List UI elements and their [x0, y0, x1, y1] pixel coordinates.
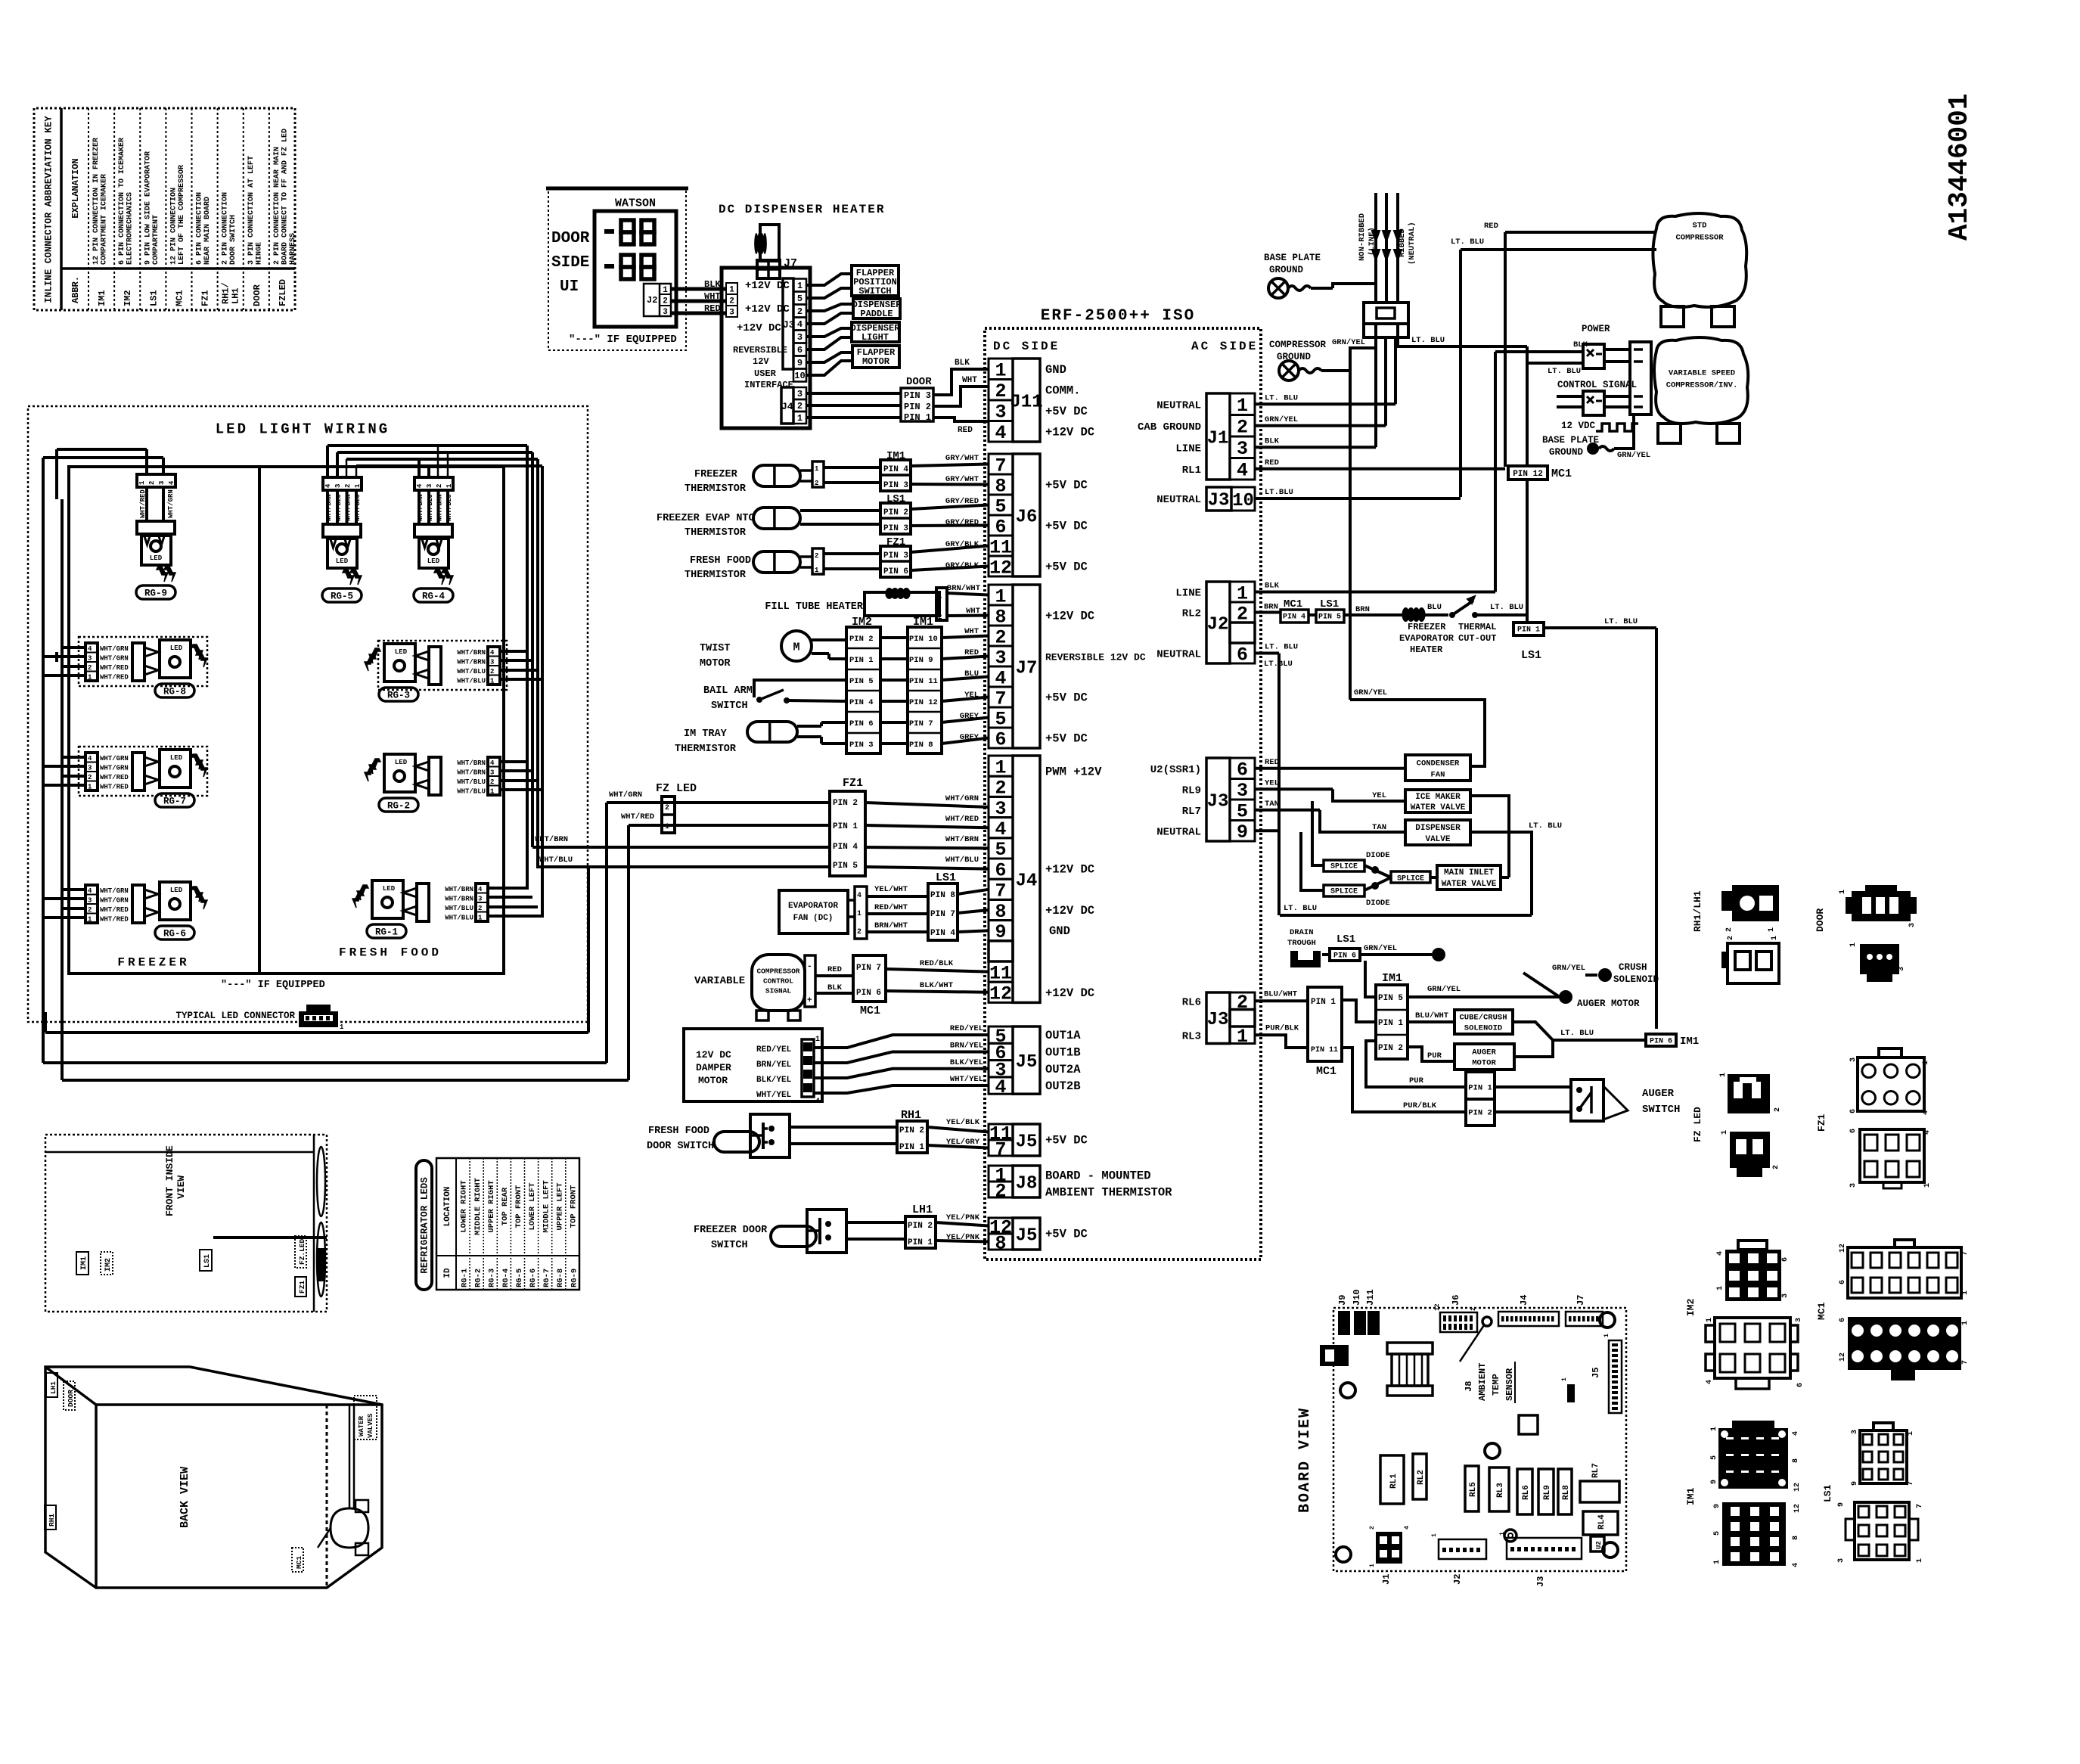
svg-text:MIDDLE LEFT: MIDDLE LEFT: [542, 1180, 551, 1232]
label FZ1 front view: [295, 1277, 306, 1297]
variable speed compressor blob: [1654, 337, 1748, 424]
svg-text:SOLENOID: SOLENOID: [1613, 974, 1659, 985]
svg-text:12: 12: [1434, 1303, 1441, 1311]
svg-text:BACK VIEW: BACK VIEW: [179, 1467, 191, 1528]
svg-text:LED: LED: [383, 885, 396, 893]
svg-text:PWM +12V: PWM +12V: [1045, 766, 1102, 779]
connector J3 pin 10: [1206, 487, 1231, 511]
LED plug RG-1: [417, 884, 429, 921]
svg-text:RG-3: RG-3: [387, 690, 410, 700]
svg-text:RG-2: RG-2: [387, 800, 410, 811]
svg-text:3: 3: [1898, 967, 1906, 971]
svg-text:HARNESS: HARNESS: [289, 233, 297, 265]
svg-text:TEMP: TEMP: [1491, 1374, 1501, 1396]
LED plug RG-9: [137, 521, 175, 534]
connector picture FZ1 rear: [1860, 1129, 1924, 1182]
svg-text:3: 3: [797, 332, 803, 343]
svg-text:4: 4: [1792, 1563, 1800, 1567]
pcb heatsink: [1387, 1343, 1433, 1354]
wire BLK J2-1 to UI: [671, 287, 726, 291]
svg-text:OUT1B: OUT1B: [1045, 1045, 1081, 1059]
svg-text:VARIABLE SPEED: VARIABLE SPEED: [1669, 369, 1735, 378]
svg-text:12: 12: [1793, 1504, 1802, 1513]
svg-text:DOOR: DOOR: [252, 284, 262, 306]
board view outline: [1333, 1308, 1626, 1571]
svg-text:TOP FRONT: TOP FRONT: [514, 1185, 523, 1228]
svg-text:SWITCH: SWITCH: [711, 700, 748, 712]
LED box RG-7: [160, 750, 191, 787]
wire J1-2 GRN/YEL: [1255, 424, 1386, 427]
svg-text:12V: 12V: [753, 356, 769, 367]
svg-text:PIN 1: PIN 1: [904, 412, 931, 423]
LED pin block RG-1: [476, 884, 488, 921]
bolts RG-1: [357, 885, 368, 900]
wire LS1 PIN6 to IM1 PIN5: [1365, 961, 1376, 997]
svg-text:GRY/BLK: GRY/BLK: [945, 561, 979, 570]
svg-text:RL5: RL5: [1469, 1482, 1478, 1497]
wire BRN/WHT to J4-9: [867, 930, 928, 933]
condenser fan box: [1405, 755, 1470, 781]
svg-text:1: 1: [1916, 1558, 1924, 1563]
back view outline: [45, 1367, 382, 1588]
svg-text:LT. BLU: LT. BLU: [1490, 603, 1523, 612]
svg-text:MAIN INLET: MAIN INLET: [1444, 868, 1494, 877]
UI inline pins 1-3: [726, 283, 737, 294]
pcb relay RL4: [1583, 1511, 1618, 1535]
svg-text:RL1: RL1: [1182, 464, 1201, 477]
svg-text:PIN 2: PIN 2: [1378, 1044, 1403, 1053]
connector J3 AC pin column: [1230, 758, 1255, 779]
wire PUR to auger switch PIN 1: [1366, 1041, 1466, 1087]
svg-text:1: 1: [478, 915, 483, 922]
svg-text:RG-7: RG-7: [542, 1269, 551, 1287]
svg-text:5: 5: [797, 293, 803, 304]
thermal cut-out switch: [1424, 613, 1448, 616]
svg-text:BRN/WHT: BRN/WHT: [947, 584, 980, 593]
led bus stubs RG-8: [62, 646, 85, 649]
svg-text:LED: LED: [336, 557, 349, 565]
svg-text:12: 12: [1839, 1244, 1847, 1253]
svg-text:AC SIDE: AC SIDE: [1191, 340, 1258, 353]
wire GRY/WHT to J6-8: [824, 481, 880, 484]
svg-text:1: 1: [857, 910, 861, 918]
svg-text:RED: RED: [958, 426, 973, 435]
LED connector RG-5: [323, 477, 362, 490]
label WATER VALVES back view: [354, 1396, 377, 1439]
front view freezer divider: [213, 1236, 327, 1239]
svg-text:6: 6: [797, 345, 803, 356]
svg-text:4: 4: [1404, 1526, 1411, 1530]
svg-text:FZ1: FZ1: [298, 1281, 306, 1293]
svg-text:BOARD - MOUNTED: BOARD - MOUNTED: [1045, 1169, 1151, 1183]
svg-text:YEL: YEL: [1265, 778, 1279, 787]
svg-text:BRN: BRN: [1355, 605, 1370, 614]
svg-text:NEAR MAIN BOARD: NEAR MAIN BOARD: [203, 197, 212, 265]
svg-text:4: 4: [1237, 460, 1248, 482]
svg-text:LH1: LH1: [49, 1381, 57, 1394]
svg-text:(NEUTRAL): (NEUTRAL): [1408, 222, 1417, 265]
svg-text:WHT/BRN: WHT/BRN: [457, 759, 486, 767]
svg-text:LT. BLU: LT. BLU: [1548, 367, 1581, 376]
svg-text:EXPLANATION: EXPLANATION: [70, 158, 81, 218]
svg-text:BLK: BLK: [955, 359, 970, 368]
door slots front view: [317, 1147, 325, 1216]
svg-text:+12V DC: +12V DC: [737, 322, 781, 334]
svg-text:GREY: GREY: [960, 712, 979, 721]
svg-text:J3: J3: [1207, 1010, 1229, 1030]
pcb relay RL9: [1538, 1469, 1554, 1514]
ice maker water valve box: [1405, 790, 1470, 812]
wires freezer door switch to LH1 to J5: [846, 1221, 905, 1224]
svg-text:RH1/: RH1/: [221, 282, 231, 304]
svg-text:PIN 4: PIN 4: [849, 698, 874, 707]
wire J3-1 PUR/BLK: [1255, 1035, 1308, 1048]
svg-text:2: 2: [995, 1180, 1006, 1202]
svg-text:REVERSIBLE: REVERSIBLE: [733, 345, 787, 356]
LED pin block RG-8: [85, 643, 98, 681]
freezer evaporator heater coil: [1402, 607, 1425, 622]
svg-text:IM2: IM2: [1685, 1298, 1697, 1316]
vertical GRN/YEL to condenser fan: [1349, 371, 1352, 700]
svg-text:LED: LED: [170, 887, 183, 894]
svg-text:BLK: BLK: [1265, 436, 1280, 446]
svg-text:RED/BLK: RED/BLK: [920, 959, 954, 968]
pcb U2: [1591, 1536, 1604, 1551]
svg-text:GROUND: GROUND: [1549, 447, 1584, 458]
bolts RG-4: [434, 570, 445, 585]
svg-text:1: 1: [1237, 1026, 1248, 1048]
svg-text:GRN/YEL: GRN/YEL: [1354, 688, 1387, 697]
svg-text:MOTOR: MOTOR: [862, 356, 890, 367]
pcb relay RL7: [1580, 1481, 1619, 1502]
LED connector RG-9: [137, 474, 175, 487]
svg-text:TOP FRONT: TOP FRONT: [569, 1185, 578, 1228]
svg-text:J3: J3: [1208, 490, 1230, 511]
cube/crush solenoid box: [1454, 1010, 1513, 1034]
bolts RG-7: [191, 754, 203, 769]
svg-text:VALVE: VALVE: [1425, 835, 1450, 844]
svg-text:J1: J1: [1381, 1574, 1392, 1585]
svg-text:1: 1: [815, 465, 819, 473]
dispenser light box: [852, 322, 899, 342]
svg-text:PIN 7: PIN 7: [930, 910, 955, 919]
cube and auger loop to LT. BLU: [1513, 1022, 1646, 1040]
svg-text:YEL: YEL: [964, 691, 979, 700]
svg-text:WHT/BRN: WHT/BRN: [345, 494, 352, 521]
svg-text:GROUND: GROUND: [1269, 265, 1304, 275]
connector J5 pin column: [989, 1026, 1013, 1043]
connector picture DOOR rear: [1860, 944, 1899, 974]
svg-text:WHT/BLU: WHT/BLU: [335, 494, 343, 521]
svg-text:+12V DC: +12V DC: [1045, 904, 1094, 918]
wire RED DOOR to J11-4: [933, 418, 989, 421]
connector J3 AC pin column: [1230, 992, 1255, 1010]
connector J5 label box: [1013, 1026, 1040, 1094]
svg-text:WHT/YEL: WHT/YEL: [950, 1075, 983, 1084]
connector J3 AC label box: [1206, 758, 1230, 841]
svg-text:LED: LED: [395, 648, 408, 656]
svg-text:9: 9: [1237, 821, 1248, 843]
pcb relay RL5: [1465, 1466, 1479, 1511]
svg-text:+12V DC: +12V DC: [1045, 610, 1094, 623]
svg-text:PUR: PUR: [1409, 1076, 1424, 1085]
svg-text:GRN/YEL: GRN/YEL: [1427, 985, 1461, 994]
wire RED to std compressor: [1505, 231, 1656, 234]
svg-text:6: 6: [1796, 1383, 1805, 1387]
svg-text:J2: J2: [647, 295, 657, 306]
wire LT.BLU to power module: [1527, 362, 1583, 365]
neutral return loop: [1255, 829, 1280, 832]
svg-text:+5V DC: +5V DC: [1045, 1228, 1088, 1241]
svg-text:"---" IF EQUIPPED: "---" IF EQUIPPED: [221, 980, 325, 991]
svg-text:LT. BLU: LT. BLU: [1411, 336, 1445, 345]
svg-text:MOTOR: MOTOR: [1472, 1059, 1496, 1068]
svg-text:PIN 3: PIN 3: [904, 390, 931, 401]
svg-text:COMPRESSOR/INV.: COMPRESSOR/INV.: [1666, 381, 1738, 390]
wire J3-2 BLU/WHT: [1255, 999, 1308, 1002]
pcb relay RL1: [1380, 1455, 1404, 1504]
power plug: [1364, 303, 1408, 337]
connector J1 AC label box: [1206, 393, 1230, 480]
svg-text:SOLENOID: SOLENOID: [1464, 1024, 1502, 1033]
svg-text:RG-9: RG-9: [144, 588, 167, 598]
svg-text:FZ LED: FZ LED: [1692, 1107, 1703, 1142]
svg-text:RG-1: RG-1: [375, 927, 398, 937]
svg-text:9: 9: [1713, 1504, 1721, 1508]
svg-text:WHT/RED: WHT/RED: [100, 906, 129, 914]
LED box RG-8: [160, 640, 191, 678]
pcb J3 connector: [1507, 1538, 1582, 1559]
svg-text:GRY/WHT: GRY/WHT: [945, 454, 979, 463]
wire BLK to power module: [1495, 350, 1583, 353]
svg-text:CUT-OUT: CUT-OUT: [1458, 633, 1496, 644]
svg-text:WHT/BRN: WHT/BRN: [436, 494, 444, 521]
svg-text:DOOR SWITCH: DOOR SWITCH: [647, 1141, 714, 1152]
freezer evap thermistor symbol: [753, 508, 800, 529]
svg-text:3: 3: [1849, 1183, 1858, 1188]
svg-text:THERMISTOR: THERMISTOR: [685, 527, 747, 539]
svg-text:LT.BLU: LT.BLU: [1265, 488, 1293, 497]
svg-text:LINE: LINE: [1175, 588, 1201, 600]
svg-text:SPLICE: SPLICE: [1330, 863, 1358, 871]
flapper position switch box: [852, 266, 899, 296]
svg-text:+5V DC: +5V DC: [1045, 520, 1088, 533]
svg-text:DOOR: DOOR: [1815, 908, 1826, 932]
svg-text:REVERSIBLE 12V DC: REVERSIBLE 12V DC: [1045, 652, 1146, 663]
svg-text:PIN 7: PIN 7: [856, 964, 881, 973]
svg-text:2: 2: [815, 480, 818, 487]
svg-text:RED: RED: [964, 648, 979, 657]
svg-text:REFRIGERATOR LEDS: REFRIGERATOR LEDS: [419, 1177, 430, 1274]
svg-text:MIDDLE RIGHT: MIDDLE RIGHT: [473, 1178, 483, 1235]
svg-text:12: 12: [989, 983, 1012, 1005]
label DOOR back view: [64, 1381, 75, 1410]
svg-text:RED/YEL: RED/YEL: [950, 1024, 983, 1033]
svg-text:CAB GROUND: CAB GROUND: [1138, 421, 1201, 433]
wire J3-5 TAN to dispenser valve: [1255, 809, 1320, 812]
std compressor blob: [1653, 213, 1746, 307]
svg-text:DOOR: DOOR: [551, 230, 590, 247]
valve return loop LT. BLU: [1470, 796, 1509, 877]
splice middle: [1391, 871, 1430, 883]
dispenser valve box: [1405, 820, 1470, 845]
svg-text:OUT2B: OUT2B: [1045, 1079, 1081, 1093]
svg-text:GND: GND: [1045, 363, 1066, 377]
label IM1 front view: [76, 1252, 88, 1275]
connector picture LS1 rear: [1855, 1502, 1909, 1560]
fresh food bus tops: [328, 444, 527, 447]
svg-text:7: 7: [1961, 1251, 1970, 1256]
svg-text:WHT/GRN: WHT/GRN: [100, 655, 129, 663]
svg-text:LED: LED: [170, 754, 183, 762]
svg-text:LT. BLU: LT. BLU: [1560, 1029, 1594, 1038]
svg-text:TAN: TAN: [1265, 800, 1279, 809]
svg-text:AMBIENT THERMISTOR: AMBIENT THERMISTOR: [1045, 1186, 1172, 1200]
svg-text:WATER VALVE: WATER VALVE: [1442, 880, 1497, 889]
svg-text:+12V DC: +12V DC: [1045, 863, 1094, 877]
svg-text:LH1: LH1: [231, 287, 241, 304]
svg-text:1: 1: [490, 788, 495, 796]
svg-text:5: 5: [1710, 1455, 1718, 1460]
svg-text:FRESH FOOD: FRESH FOOD: [690, 555, 751, 567]
wire GRY/RED to J6-5: [800, 509, 880, 512]
svg-text:WHT/RED: WHT/RED: [621, 812, 654, 821]
wires UI J4 to DOOR: [806, 392, 901, 395]
svg-text:RL6: RL6: [1522, 1485, 1531, 1500]
svg-text:BRN/YEL: BRN/YEL: [756, 1061, 792, 1070]
svg-text:U2(SSR1): U2(SSR1): [1150, 764, 1201, 776]
svg-text:2: 2: [1369, 1526, 1376, 1530]
user interface box: [722, 268, 810, 428]
12V DC damper motor box: [684, 1029, 822, 1101]
svg-text:2: 2: [665, 804, 669, 812]
svg-text:"---" IF EQUIPPED: "---" IF EQUIPPED: [569, 334, 677, 346]
wires damper motor to J5: [814, 1035, 989, 1048]
svg-text:8: 8: [1792, 1536, 1800, 1540]
svg-text:4: 4: [416, 483, 424, 488]
svg-text:4: 4: [1923, 1130, 1932, 1135]
watson display box: [595, 211, 676, 327]
svg-text:1: 1: [1849, 943, 1858, 947]
svg-text:J6: J6: [1451, 1295, 1461, 1306]
svg-text:WHT: WHT: [704, 291, 721, 302]
svg-text:PIN 4: PIN 4: [1283, 613, 1305, 622]
LED box RG-5: [328, 539, 357, 568]
wire J2-6 LT. BLU neutral: [1255, 652, 1279, 655]
svg-text:WHT/BLU: WHT/BLU: [945, 856, 979, 865]
svg-text:COMPRESSOR: COMPRESSOR: [1269, 340, 1327, 350]
svg-text:7: 7: [995, 1138, 1006, 1160]
svg-text:BOARD VIEW: BOARD VIEW: [1296, 1407, 1314, 1513]
svg-text:4: 4: [1792, 1431, 1800, 1436]
svg-text:1: 1: [1237, 395, 1248, 417]
svg-text:YEL/BLK: YEL/BLK: [946, 1118, 980, 1127]
svg-text:IM1: IM1: [97, 290, 107, 306]
svg-text:MC1: MC1: [174, 290, 185, 306]
connector J7 label box: [1013, 585, 1040, 748]
LED box RG-3: [384, 644, 415, 682]
svg-text:RH1: RH1: [48, 1514, 56, 1526]
oval RG-7: [155, 793, 194, 807]
svg-text:LT. BLU: LT. BLU: [1604, 617, 1638, 626]
svg-text:J4: J4: [1519, 1295, 1529, 1306]
svg-text:YEL/GRY: YEL/GRY: [946, 1138, 980, 1147]
svg-text:WHT/RED: WHT/RED: [100, 674, 129, 682]
svg-text:CONDENSER: CONDENSER: [1417, 759, 1460, 769]
svg-text:DIODE: DIODE: [1366, 899, 1390, 908]
svg-text:1: 1: [1431, 1533, 1438, 1537]
oval RG-6: [155, 926, 194, 939]
svg-text:NEUTRAL: NEUTRAL: [1156, 494, 1201, 506]
front inside view box: [45, 1135, 327, 1312]
LED box RG-4: [419, 539, 449, 568]
svg-text:DIODE: DIODE: [1366, 851, 1390, 860]
svg-text:GRY/RED: GRY/RED: [945, 497, 979, 506]
svg-text:GRY/RED: GRY/RED: [945, 518, 979, 527]
inline LS1 PIN 1: [1513, 623, 1544, 635]
wires RG-5: [326, 490, 329, 524]
svg-text:DRAIN: DRAIN: [1290, 928, 1314, 937]
svg-text:RG-1: RG-1: [461, 1269, 470, 1287]
svg-text:WHT: WHT: [964, 627, 979, 636]
wires RG-4: [418, 490, 421, 524]
svg-text:1: 1: [1907, 1431, 1915, 1436]
svg-text:FREEZER: FREEZER: [117, 956, 189, 970]
svg-text:WHT/BRN: WHT/BRN: [417, 494, 424, 521]
svg-text:LED LIGHT WIRING: LED LIGHT WIRING: [216, 421, 390, 438]
pcb small part: [1567, 1384, 1575, 1402]
svg-text:BRN/YEL: BRN/YEL: [950, 1041, 983, 1050]
svg-text:IM TRAY: IM TRAY: [684, 728, 728, 740]
svg-text:GRN/YEL: GRN/YEL: [1617, 451, 1650, 460]
svg-text:+5V DC: +5V DC: [1045, 561, 1088, 574]
svg-text:WHT/BRN: WHT/BRN: [445, 886, 473, 893]
svg-text:HEATER: HEATER: [1410, 644, 1443, 655]
svg-text:COMPARTMENT: COMPARTMENT: [152, 215, 160, 265]
svg-text:J2: J2: [1207, 614, 1229, 635]
LED connector RG-4: [414, 477, 453, 490]
condenser fan return GRN/YEL: [1350, 700, 1485, 766]
svg-text:2: 2: [1237, 417, 1248, 439]
connector J4 pin column: [989, 756, 1013, 776]
wire WHT J2-2 to UI: [671, 300, 726, 303]
svg-text:CONTROL SIGNAL: CONTROL SIGNAL: [1557, 380, 1637, 390]
svg-text:J5: J5: [1016, 1225, 1038, 1246]
led bus stubs RG-7: [62, 756, 85, 759]
svg-text:BRN: BRN: [1264, 603, 1278, 612]
svg-text:NEUTRAL: NEUTRAL: [1156, 649, 1201, 661]
svg-text:ABBR.: ABBR.: [70, 276, 81, 303]
svg-text:+: +: [807, 996, 812, 1005]
svg-text:2: 2: [857, 928, 861, 936]
svg-text:RED/WHT: RED/WHT: [874, 903, 908, 912]
svg-text:FREEZER: FREEZER: [694, 469, 738, 480]
connector J6 label box: [1013, 454, 1040, 576]
wire WHT DOOR to J11-2: [933, 387, 989, 406]
svg-text:OUT1A: OUT1A: [1045, 1029, 1081, 1042]
wire GRN/YEL auger motor: [1408, 995, 1560, 998]
led bus verticals left: [55, 449, 58, 499]
svg-text:12V DC: 12V DC: [696, 1049, 731, 1061]
connector J1 AC pin column: [1230, 393, 1255, 415]
svg-text:1: 1: [88, 674, 92, 682]
pcb relay RL3: [1489, 1467, 1509, 1511]
svg-text:WHT/GRN: WHT/GRN: [100, 645, 129, 653]
connector picture MC1 rear: [1848, 1317, 1961, 1370]
svg-text:RG-8: RG-8: [163, 686, 186, 697]
svg-text:FZ1: FZ1: [843, 777, 863, 790]
svg-text:1: 1: [938, 592, 942, 600]
